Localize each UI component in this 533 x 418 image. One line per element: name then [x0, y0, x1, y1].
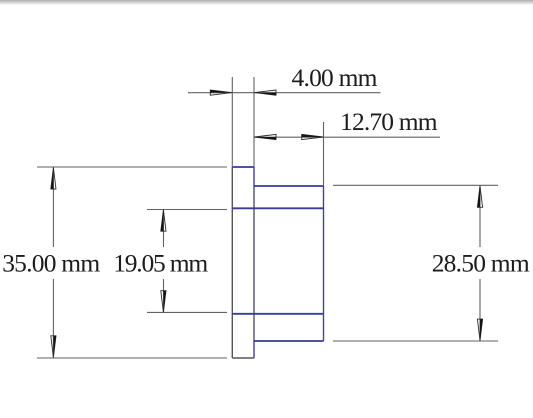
svg-text:19.05 mm: 19.05 mm: [113, 249, 208, 278]
svg-text:28.50 mm: 28.50 mm: [432, 248, 530, 277]
svg-text:4.00 mm: 4.00 mm: [292, 63, 378, 92]
svg-text:35.00 mm: 35.00 mm: [2, 249, 100, 278]
svg-text:12.70 mm: 12.70 mm: [340, 107, 438, 136]
